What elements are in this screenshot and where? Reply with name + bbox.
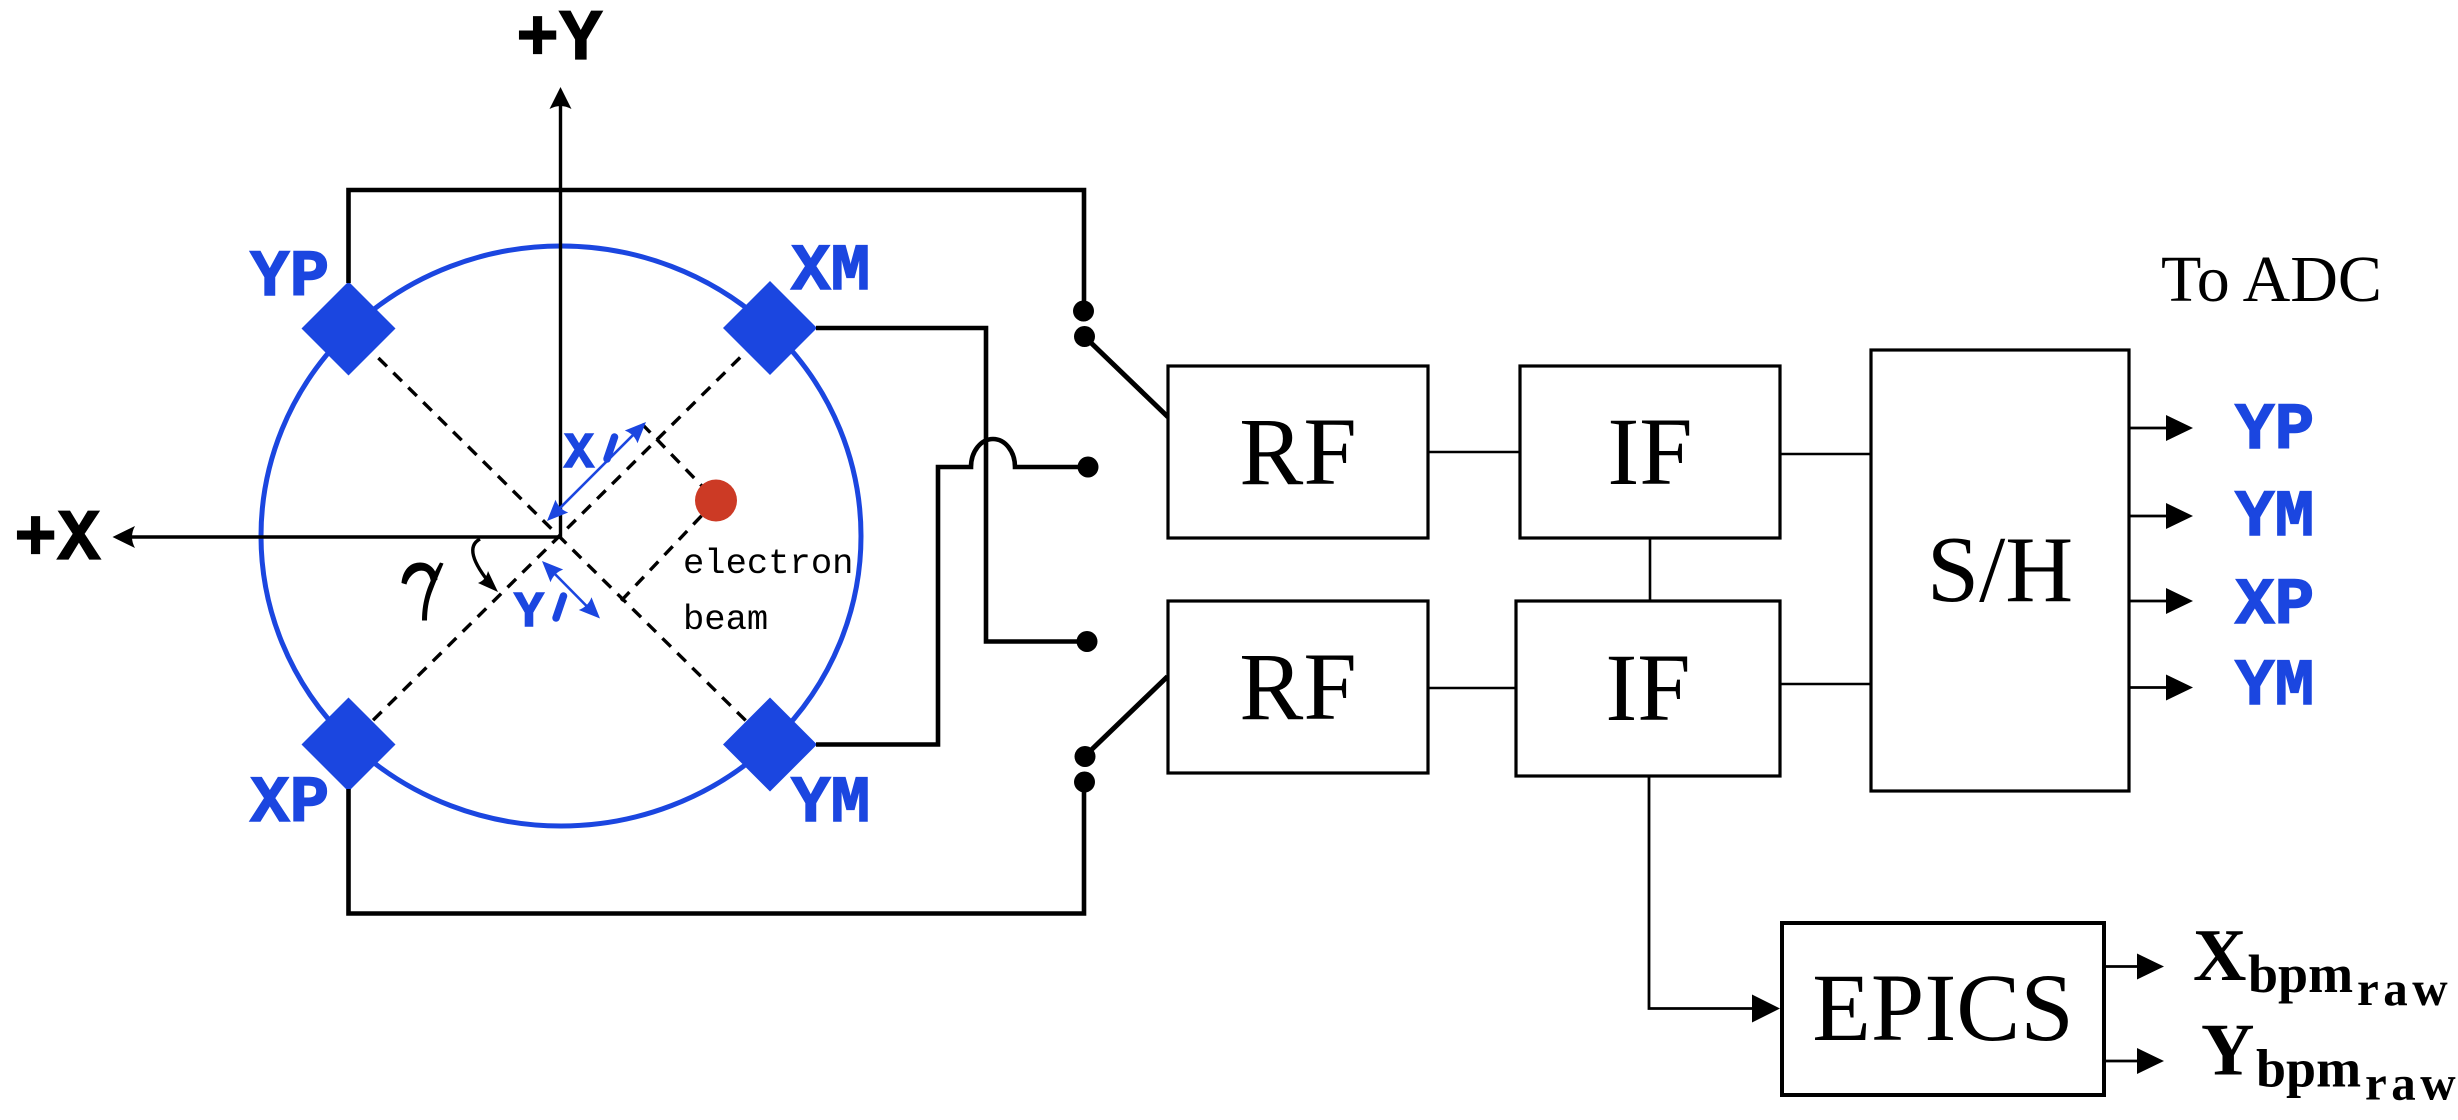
- output arrow Ybpm: [2104, 1060, 2140, 1063]
- axis +X: [124, 535, 561, 538]
- electrode XP: [302, 698, 396, 792]
- svg-text:X: X: [564, 426, 594, 483]
- switch 2 lever to RF 2: [1086, 677, 1168, 756]
- box IF 1: [1520, 366, 1780, 538]
- svg-text:X: X: [2193, 915, 2246, 997]
- box EPICS: [1782, 923, 2104, 1095]
- wire XP electrode to switch 2: [349, 782, 1085, 914]
- switch 2 throw contact (from XM): [1077, 631, 1098, 652]
- svg-text:bpm: bpm: [2256, 1039, 2361, 1099]
- svg-text:YM: YM: [2235, 480, 2314, 555]
- svg-text:To ADC: To ADC: [2161, 243, 2382, 316]
- electrode YP: [302, 282, 396, 376]
- svg-text:raw: raw: [2365, 1056, 2458, 1111]
- svg-text:YP: YP: [250, 240, 329, 315]
- switch 1 throw contact (from YM): [1078, 457, 1099, 478]
- electron beam dot: [695, 480, 737, 522]
- wire XM electrode to switch 2: [816, 328, 1087, 642]
- wire IF1 to S/H: [1780, 453, 1871, 456]
- svg-text:beam: beam: [683, 599, 768, 640]
- wire RF1 to IF1: [1428, 451, 1520, 454]
- wire IF2 to EPICS with arrow: [1649, 776, 1766, 1009]
- wire YP electrode to switch 1: [349, 190, 1085, 301]
- label gamma: [402, 562, 438, 584]
- output arrow Xbpm: [2104, 965, 2140, 968]
- switch 1 lever to RF 1: [1086, 338, 1168, 417]
- node pickup: dashed diagonal YP-YM: [349, 329, 771, 745]
- svg-text:Y: Y: [514, 585, 544, 642]
- svg-text:raw: raw: [2357, 961, 2452, 1016]
- svg-text:XM: XM: [791, 234, 870, 309]
- switch 2 throw contact (from XP): [1074, 772, 1095, 793]
- svg-text:YM: YM: [2235, 649, 2314, 724]
- switch 2 pole contact: [1075, 746, 1096, 767]
- svg-text:XP: XP: [250, 766, 329, 841]
- box IF 2: [1516, 601, 1780, 776]
- wire RF2 to IF2: [1428, 687, 1516, 690]
- output arrow YM2: [2129, 686, 2168, 689]
- output arrow YM: [2129, 515, 2168, 518]
- box RF 2: [1168, 601, 1428, 773]
- axis Y' double arrow: [551, 570, 591, 611]
- svg-text:bpm: bpm: [2248, 944, 2353, 1004]
- node pickup: dashed diagonal XM-XP: [349, 328, 771, 745]
- node projection: dashed line beam to Y'-foot: [620, 501, 716, 603]
- wire YM electrode to switch 1 (with crossover hump): [816, 439, 1088, 745]
- electrode XM: [723, 281, 817, 375]
- svg-text:S/H: S/H: [1927, 518, 2073, 622]
- svg-text:+X: +X: [14, 499, 101, 581]
- svg-text:Y: Y: [2201, 1010, 2254, 1092]
- switch 1 throw contact (from YP): [1073, 301, 1094, 322]
- svg-text:YP: YP: [2235, 393, 2314, 468]
- svg-text:RF: RF: [1239, 633, 1356, 740]
- axis +Y: [559, 97, 562, 537]
- switch 1 pole contact: [1074, 326, 1095, 347]
- gamma angle arc arrow: [473, 539, 492, 586]
- electrode YM: [723, 698, 817, 792]
- svg-text:EPICS: EPICS: [1812, 954, 2073, 1061]
- box S/H: [1871, 350, 2129, 791]
- svg-text:IF: IF: [1607, 398, 1692, 505]
- axis X' double arrow: [557, 432, 636, 511]
- wire IF1 to IF2: [1649, 538, 1652, 601]
- svg-text:+Y: +Y: [516, 0, 603, 81]
- node projection: dashed line X'-foot to beam: [642, 424, 716, 501]
- svg-text:YM: YM: [791, 766, 870, 841]
- svg-text:electron: electron: [683, 543, 853, 584]
- box RF 1: [1168, 366, 1428, 538]
- wire IF2 to S/H: [1780, 683, 1871, 686]
- BPM chamber circle: [261, 246, 861, 826]
- output arrow YP: [2129, 427, 2168, 430]
- svg-text:IF: IF: [1605, 634, 1690, 741]
- svg-text:RF: RF: [1239, 398, 1356, 505]
- svg-text:XP: XP: [2235, 568, 2314, 643]
- output arrow XP: [2129, 600, 2168, 603]
